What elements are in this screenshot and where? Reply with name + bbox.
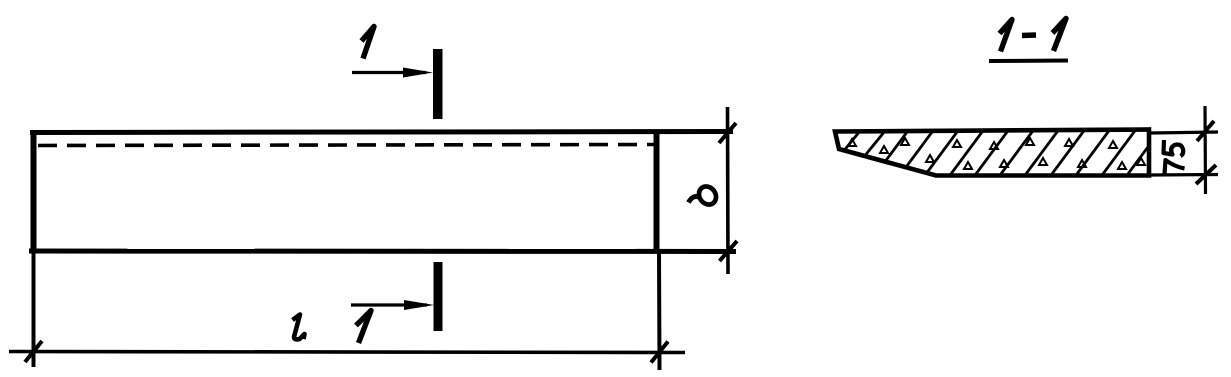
plan view: slab outline (29, 130, 736, 370)
tick right of dimension l (651, 342, 668, 363)
wire hidden dashed line (38, 145, 654, 146)
wire bottom edge of slab (extends right as extension line for b) (29, 249, 736, 255)
wire bottom extension line (1151, 173, 1218, 177)
wire right edge of slab (654, 130, 660, 252)
label l (script ell) (293, 315, 305, 340)
label b (rotated) (689, 183, 720, 208)
dimension b (right of plan view) (689, 107, 738, 274)
wire left extension line down to dimension line (32, 252, 36, 367)
wire top extension line (1151, 132, 1218, 133)
label 1 (bottom section mark) (356, 311, 371, 344)
tick left of dimension l (25, 341, 42, 362)
label 1-1 (1000, 20, 1013, 52)
tick bottom of dimension 75 (1196, 165, 1216, 184)
wire bottom section bar (434, 262, 443, 331)
tick top of dimension b (719, 123, 736, 143)
wire b dimension line (726, 107, 730, 274)
tick bottom of dimension b (720, 241, 738, 261)
wire right extension line down to dimension line (657, 252, 662, 370)
wire left edge of slab (31, 130, 37, 252)
section view: slab cross-section (820, 128, 1162, 182)
concrete triangle marks (848, 138, 1145, 169)
wire top edge of slab (extends right as extension line for b) (30, 132, 733, 133)
dimension 75 (right of section) (1151, 106, 1218, 194)
section cut mark 1 (top) (352, 27, 443, 120)
cross-section outline (835, 130, 1149, 176)
wire top section arrow (352, 71, 426, 74)
label 1 (top section mark) (362, 27, 375, 59)
tick top of dimension 75 (1197, 121, 1214, 141)
dimension l (bottom) (9, 315, 685, 363)
section cut mark 1 (bottom) (351, 262, 443, 343)
wire 75 dimension line (1203, 106, 1207, 194)
wire bottom section arrow (351, 303, 427, 306)
label 75 (rotated) (1164, 140, 1185, 174)
wire top section bar (433, 49, 443, 119)
section view title 1-1 (989, 19, 1068, 62)
wire bottom dimension line (9, 352, 685, 353)
wire title underline (989, 59, 1068, 64)
hatching of cross-section (820, 128, 1162, 182)
